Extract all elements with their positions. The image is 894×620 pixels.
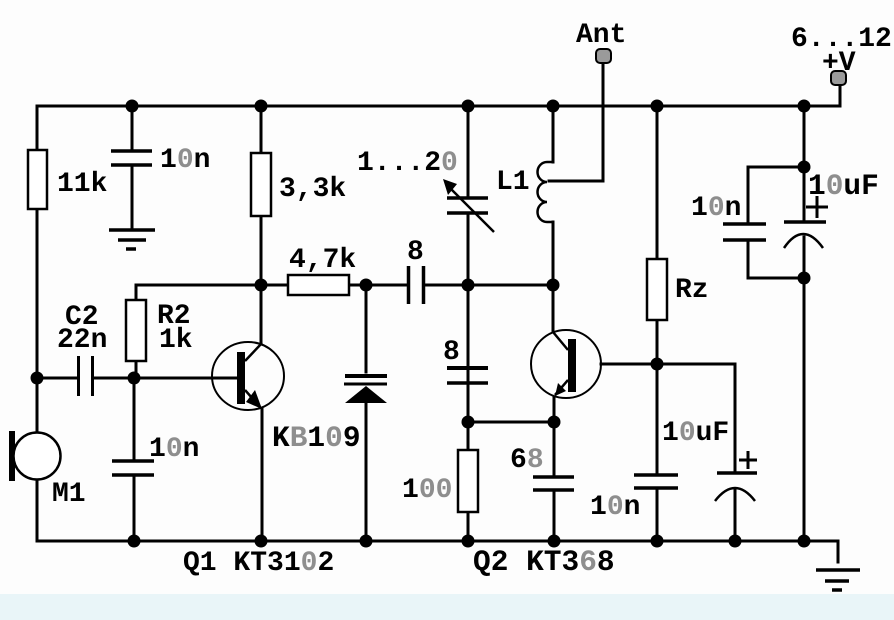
terminal +V xyxy=(831,71,846,85)
wire L1 top lead xyxy=(552,106,555,162)
capacitor 10uF electrolytic (bottom) xyxy=(715,451,757,501)
node bottom rail 6 xyxy=(651,535,664,548)
wire emitter row xyxy=(468,421,554,424)
node bottom rail 2 xyxy=(255,535,268,548)
wire Q2 emitter to 68 cap xyxy=(553,422,556,475)
node top rail 4 xyxy=(547,100,560,113)
capacitor 8 (series, horizontal) xyxy=(409,266,424,304)
wire node to 10uF top xyxy=(803,167,806,220)
capacitor C2 22n xyxy=(79,356,93,396)
svg-text:10uF: 10uF xyxy=(808,169,879,203)
wire base node down to 10n xyxy=(133,378,136,459)
node emitter row left xyxy=(462,416,475,429)
node right column upper xyxy=(798,161,811,174)
svg-text:3,3k: 3,3k xyxy=(279,174,346,205)
wire feedback R2 link xyxy=(136,285,261,300)
wire 8 cap to trimmer column xyxy=(425,284,468,287)
node right column lower xyxy=(798,272,811,285)
microphone M1 xyxy=(9,431,61,481)
svg-text:Q2 KT368: Q2 KT368 xyxy=(473,545,615,579)
wire ground stub bottom right xyxy=(837,541,840,562)
wire 10n branch bottom xyxy=(747,242,750,278)
svg-text:10n: 10n xyxy=(160,145,210,176)
wire antenna vertical xyxy=(602,63,605,181)
ground bottom-right xyxy=(816,570,860,590)
wire base row down to 10uF xyxy=(734,364,737,471)
svg-text:8: 8 xyxy=(407,237,424,268)
wire 10uF arc to lower node xyxy=(803,237,806,278)
node bottom rail 3 xyxy=(360,535,373,548)
node KB109 top xyxy=(360,279,373,292)
wire 10n to ground xyxy=(131,167,134,228)
svg-text:KB109: KB109 xyxy=(272,421,361,455)
wire to 100 resistor xyxy=(467,422,470,450)
node top rail 1 xyxy=(126,100,139,113)
capacitor 10n top-left xyxy=(111,151,152,165)
svg-text:100: 100 xyxy=(402,475,452,506)
node trimmer mid xyxy=(462,279,475,292)
svg-text:Ant: Ant xyxy=(576,20,626,51)
node Q1 collector xyxy=(255,279,268,292)
node Q2 base xyxy=(651,358,664,371)
wire 10n column top-left xyxy=(131,106,134,148)
node mic/C2 xyxy=(31,372,44,385)
svg-text:Rz: Rz xyxy=(675,275,709,306)
wire antenna tap xyxy=(549,180,603,183)
svg-text:M1: M1 xyxy=(52,479,86,510)
node bottom rail 4 xyxy=(462,535,475,548)
wire node to 8 cap xyxy=(366,284,407,287)
node top rail 5 xyxy=(651,100,664,113)
capacitor 68 xyxy=(533,477,574,490)
svg-text:8: 8 xyxy=(443,337,460,368)
wire base node to Q1 base xyxy=(135,377,237,380)
transistor Q1 xyxy=(212,342,284,410)
wire Rz to base node xyxy=(656,320,659,364)
wire 10uF to rail xyxy=(734,490,737,541)
inductor L1 xyxy=(538,162,554,222)
svg-text:Q1 KT3102: Q1 KT3102 xyxy=(183,548,334,579)
ground top-left xyxy=(109,230,155,249)
wire 68 cap to rail xyxy=(553,492,556,541)
node bottom rail 1 xyxy=(128,535,141,548)
wire R2 bottom to base node xyxy=(135,361,138,378)
svg-text:4,7k: 4,7k xyxy=(289,245,356,276)
wire 10n branch top xyxy=(748,166,804,169)
node top rail 3 xyxy=(462,100,475,113)
wire top rail xyxy=(37,105,840,108)
wire right column top xyxy=(803,106,806,167)
wire 4,7k left lead xyxy=(261,284,288,287)
resistor 100 xyxy=(458,450,478,512)
wire L1 node to Q2 collector xyxy=(552,285,555,331)
resistor 3,3k xyxy=(251,153,271,216)
wire 10n branch return xyxy=(748,277,804,280)
resistor R2 1k xyxy=(126,300,146,361)
svg-text:1...20: 1...20 xyxy=(357,148,458,179)
varicap KB109 xyxy=(344,376,387,403)
capacitor 10n (under base node) xyxy=(112,461,154,475)
wire 100 resistor to rail xyxy=(467,512,470,541)
svg-text:1k: 1k xyxy=(159,325,193,356)
wire trimmer column middle xyxy=(467,215,470,285)
wire mic node to C2 xyxy=(37,377,76,380)
terminal Ant xyxy=(596,49,611,63)
node bottom rail 5 xyxy=(548,535,561,548)
resistor 11k xyxy=(28,150,47,209)
wire left edge top (to 11k and down to mic) xyxy=(36,106,39,433)
node Q1 base xyxy=(128,372,141,385)
svg-text:10uF: 10uF xyxy=(662,418,729,449)
svg-text:10n: 10n xyxy=(149,434,199,465)
wire Rz column top xyxy=(656,106,659,259)
svg-text:L1: L1 xyxy=(496,167,530,198)
svg-text:10n: 10n xyxy=(691,193,741,224)
wire Q1 collector xyxy=(260,285,263,343)
svg-text:22n: 22n xyxy=(57,325,107,356)
wire KB109 top lead xyxy=(365,285,368,372)
wire left edge below mic xyxy=(36,480,39,541)
node bottom rail 8 xyxy=(798,535,811,548)
node bottom rail 7 xyxy=(729,535,742,548)
resistor Rz xyxy=(647,259,667,320)
wire Q2 emitter down xyxy=(553,397,556,422)
node top rail 2 xyxy=(255,100,268,113)
wire trimmer node to L1 node xyxy=(468,284,553,287)
wire base node down to 10n xyxy=(656,364,659,473)
wire 10n to rail xyxy=(656,490,659,541)
wire 4,7k right lead xyxy=(349,284,366,287)
trimmer capacitor 1...20 xyxy=(443,179,494,232)
wire 10n branch left down xyxy=(747,167,750,222)
svg-text:11k: 11k xyxy=(57,169,108,200)
wire 3,3k to Q1 collector node xyxy=(260,216,263,285)
wire 10n to bottom rail xyxy=(133,476,136,541)
capacitor 10uF electrolytic (top right) xyxy=(784,196,828,248)
wire trimmer column top xyxy=(467,106,470,196)
wire bottom rail xyxy=(37,540,838,543)
bottom band xyxy=(0,594,894,620)
capacitor 8 (vertical, at trimmer column) xyxy=(447,368,488,383)
transistor Q2 xyxy=(531,330,601,398)
wire Q2 base row xyxy=(601,363,735,366)
node emitter row right xyxy=(548,416,561,429)
wire 3,3k column top xyxy=(260,106,263,153)
wire Q1 emitter down xyxy=(261,409,264,541)
node top rail 6 xyxy=(798,100,811,113)
svg-text:10n: 10n xyxy=(590,492,640,523)
wire C2 to base node xyxy=(94,377,135,380)
wire right column to rail xyxy=(803,278,806,541)
wire L1 bottom lead xyxy=(552,222,555,285)
node L1 bottom xyxy=(547,279,560,292)
resistor 4,7k xyxy=(288,275,349,295)
svg-text:+V: +V xyxy=(822,48,856,79)
wire trimmer node down to emitter row xyxy=(467,285,470,422)
svg-text:68: 68 xyxy=(510,445,544,476)
wire KB109 bottom lead xyxy=(365,403,368,541)
capacitor 10n (at Rz column bottom) xyxy=(634,475,678,488)
wire +V drop xyxy=(839,84,842,106)
capacitor 10n (top right) xyxy=(723,224,766,240)
